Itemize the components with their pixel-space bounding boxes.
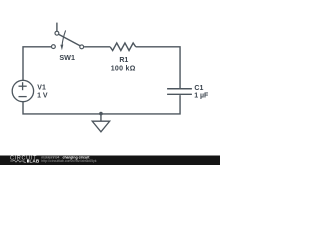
switch top terminal circle [55,31,59,35]
switch left terminal circle [52,45,56,49]
capacitor top plate [167,88,192,90]
svg-text:1 V: 1 V [37,93,48,100]
ground triangle [92,121,110,132]
CircuitLab logo chip icon [27,160,29,163]
ground [92,112,110,132]
svg-text:http://circuitlab.com/c/9tz4xb: http://circuitlab.com/c/9tz4xb6k65yk [41,159,96,163]
plus sign [19,85,27,87]
svg-text:SW1: SW1 [59,53,75,62]
junction node dot [99,112,103,116]
wire ground stub [100,114,102,121]
voltage source V1 [12,80,48,101]
footer bar [0,155,220,165]
wire top-left horizontal [23,47,51,81]
svg-text:100 kΩ: 100 kΩ [111,66,136,73]
switch top stub [56,23,58,32]
switch SW1 [52,23,84,62]
switch actuation arrow shaft [62,30,66,45]
svg-text:V1: V1 [37,85,46,92]
switch right terminal circle [80,45,84,49]
resistor R1 [110,43,136,73]
capacitor bottom plate [167,93,192,95]
wire switch to resistor [84,46,110,48]
svg-text:LAB: LAB [29,159,40,164]
switch actuation arrow head [60,45,63,51]
svg-text:1 µF: 1 µF [194,93,209,100]
wire capacitor bottom to bottom-right corner [23,95,180,114]
CircuitLab logo zigzag [10,160,26,162]
svg-text:C1: C1 [194,85,203,92]
minus sign [19,96,27,98]
switch lever [59,34,81,46]
wire resistor to top-right corner [136,47,180,88]
capacitor C1 [167,85,209,100]
svg-text:R1: R1 [119,57,128,64]
